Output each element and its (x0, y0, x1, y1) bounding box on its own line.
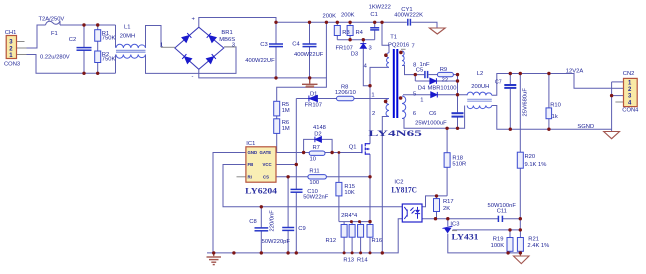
svg-text:FR107: FR107 (305, 103, 322, 109)
svg-text:D3: D3 (351, 52, 358, 58)
svg-text:R10: R10 (550, 103, 561, 109)
svg-text:-: - (192, 74, 194, 80)
svg-text:Q1: Q1 (349, 144, 357, 150)
svg-text:1k: 1k (552, 114, 558, 120)
svg-text:R3: R3 (342, 30, 349, 36)
svg-text:200K: 200K (341, 12, 355, 18)
svg-text:3: 3 (369, 46, 372, 52)
svg-text:C1: C1 (370, 12, 377, 18)
svg-text:10: 10 (310, 156, 316, 162)
svg-text:RI: RI (248, 175, 252, 180)
svg-text:7: 7 (412, 44, 415, 50)
svg-text:2.4K 1%: 2.4K 1% (527, 243, 549, 249)
svg-text:1: 1 (160, 42, 163, 48)
svg-text:R11: R11 (309, 168, 319, 174)
svg-text:25W1000uF: 25W1000uF (415, 120, 447, 126)
svg-text:6: 6 (413, 111, 416, 117)
svg-text:C3: C3 (260, 42, 267, 48)
svg-text:20MH: 20MH (120, 34, 135, 40)
svg-text:CN2: CN2 (623, 71, 635, 77)
svg-text:D1: D1 (310, 92, 317, 98)
svg-text:1M: 1M (282, 108, 290, 114)
svg-text:R16: R16 (372, 238, 383, 244)
svg-text:C11: C11 (497, 208, 507, 214)
svg-text:SGND: SGND (577, 124, 594, 130)
svg-text:R17: R17 (443, 199, 454, 205)
svg-text:1: 1 (420, 98, 423, 104)
svg-text:8: 8 (413, 63, 416, 69)
svg-text:FR107: FR107 (336, 46, 353, 52)
svg-text:L2: L2 (477, 71, 483, 77)
svg-text:2: 2 (372, 111, 375, 117)
svg-text:200UH: 200UH (471, 84, 489, 90)
svg-text:4148: 4148 (313, 125, 326, 131)
svg-text:9.1K 1%: 9.1K 1% (525, 162, 547, 168)
svg-text:22: 22 (442, 77, 448, 83)
svg-text:CON3: CON3 (4, 62, 20, 68)
svg-text:CH1: CH1 (5, 30, 17, 36)
svg-text:R19: R19 (493, 237, 504, 243)
svg-text:400W222K: 400W222K (394, 13, 423, 19)
svg-text:220/0nF: 220/0nF (270, 210, 276, 232)
svg-text:R9: R9 (440, 67, 447, 73)
svg-text:BR1: BR1 (221, 30, 232, 36)
svg-text:LY6204: LY6204 (245, 187, 277, 196)
svg-text:400W22UF: 400W22UF (245, 58, 275, 64)
svg-text:1M: 1M (282, 126, 290, 132)
svg-text:100: 100 (309, 180, 319, 186)
svg-text:25V/680uF: 25V/680uF (523, 88, 529, 117)
svg-text:L1: L1 (124, 24, 130, 30)
svg-text:C9: C9 (298, 226, 305, 232)
svg-text:200K: 200K (323, 14, 337, 20)
svg-text:GATE: GATE (260, 150, 272, 155)
svg-text:R15: R15 (344, 184, 355, 190)
svg-text:1206/10: 1206/10 (335, 90, 356, 96)
svg-text:0.22u/280V: 0.22u/280V (40, 54, 70, 60)
svg-text:C4: C4 (292, 42, 300, 48)
svg-text:R14: R14 (357, 257, 368, 263)
svg-text:50W22nF: 50W22nF (303, 194, 329, 200)
svg-text:PQ2016: PQ2016 (388, 42, 409, 48)
svg-text:100K: 100K (491, 243, 505, 249)
svg-text:12V2A: 12V2A (566, 68, 584, 74)
svg-text:VCC: VCC (263, 162, 272, 167)
svg-text:CS: CS (263, 175, 269, 180)
svg-text:R4: R4 (356, 30, 364, 36)
svg-text:C8: C8 (249, 219, 256, 225)
svg-text:R7: R7 (313, 145, 320, 151)
svg-text:F1: F1 (51, 31, 58, 37)
svg-text:R13: R13 (343, 257, 354, 263)
svg-text:C5: C5 (416, 67, 423, 73)
svg-text:R5: R5 (282, 102, 289, 108)
svg-text:3: 3 (232, 42, 235, 48)
svg-text:T2A/250V: T2A/250V (39, 16, 65, 22)
svg-text:D4: D4 (418, 85, 426, 91)
svg-text:R20: R20 (525, 154, 536, 160)
svg-text:510R: 510R (452, 161, 466, 167)
svg-text:R21: R21 (528, 237, 539, 243)
svg-text:750K: 750K (102, 57, 116, 63)
svg-text:C6: C6 (429, 111, 436, 117)
svg-text:CON4: CON4 (622, 108, 639, 114)
svg-text:LY431: LY431 (452, 233, 479, 242)
svg-text:750K: 750K (102, 36, 116, 42)
svg-text:5: 5 (413, 92, 416, 98)
svg-text:1KW222: 1KW222 (369, 4, 391, 10)
svg-text:IC1: IC1 (246, 141, 255, 147)
svg-text:LY817C: LY817C (391, 185, 417, 194)
svg-text:10K: 10K (344, 190, 354, 196)
svg-text:FB: FB (248, 162, 254, 167)
svg-text:GND: GND (248, 150, 258, 155)
svg-text:R12: R12 (326, 238, 337, 244)
svg-text:D2: D2 (314, 131, 321, 137)
svg-text:IC3: IC3 (450, 221, 459, 227)
svg-text:400W22UF: 400W22UF (294, 52, 324, 58)
svg-text:2K: 2K (443, 206, 450, 212)
svg-text:MBR10100: MBR10100 (428, 85, 457, 91)
svg-text:LY4N65: LY4N65 (368, 129, 422, 138)
svg-text:50W220pF: 50W220pF (262, 239, 291, 245)
svg-text:2R4*4: 2R4*4 (341, 213, 358, 219)
svg-text:1: 1 (371, 93, 374, 99)
svg-text:T1: T1 (390, 35, 397, 41)
svg-text:C2: C2 (69, 37, 76, 43)
